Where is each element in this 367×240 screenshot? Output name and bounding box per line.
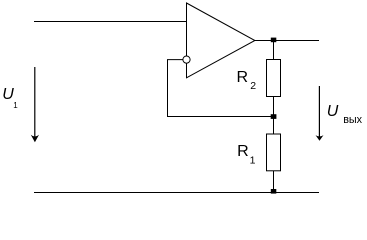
svg-text:U: U bbox=[327, 103, 339, 120]
svg-text:R: R bbox=[237, 143, 249, 160]
svg-text:1: 1 bbox=[250, 155, 256, 167]
svg-text:2: 2 bbox=[250, 80, 256, 92]
svg-text:вых: вых bbox=[343, 114, 362, 126]
svg-text:R: R bbox=[237, 69, 249, 86]
svg-text:1: 1 bbox=[13, 101, 18, 110]
